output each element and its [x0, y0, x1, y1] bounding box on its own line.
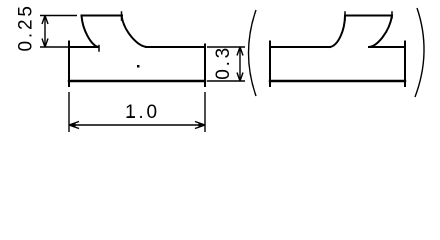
left fillet landing overshoot tick: [98, 46, 100, 52]
right shape base top edge left segment: [270, 46, 330, 48]
right shape base top edge right segment: [369, 46, 405, 48]
dim 1.0 left extension line: [68, 92, 70, 132]
foot serif of digit 1: [128, 116, 136, 118]
dim 0.3 dimension line: [239, 47, 241, 81]
dim 1.0 arrowhead left: [69, 122, 79, 129]
right shape plateau top: [345, 15, 392, 17]
plateau right end overshoot tick: [121, 12, 123, 20]
right plateau right end overshoot tick: [391, 12, 393, 18]
dim 0.25 top extension line: [40, 15, 77, 17]
center dot: [137, 65, 140, 68]
right shape base right edge: [404, 42, 406, 87]
dim 0.3 bottom extension line: [207, 80, 245, 82]
right shape base bottom edge: [270, 80, 405, 82]
dim 0.3 top extension line: [207, 46, 245, 48]
dim 0.25 arrowhead up: [42, 16, 48, 25]
right parenthesis: [415, 8, 424, 97]
dim 1.0 arrowhead right: [195, 122, 205, 129]
left shape right fillet curve: [122, 16, 148, 48]
right shape right fillet curve: [369, 16, 392, 48]
left shape base bottom edge: [69, 80, 205, 82]
dim 0.3 arrowhead up: [237, 47, 243, 56]
right plateau left end overshoot tick: [344, 12, 346, 20]
left parenthesis: [249, 10, 257, 96]
dim 0.25 bottom extension line: [40, 46, 69, 48]
dim 1.0 right extension line: [204, 92, 206, 132]
svg-text:0.3: 0.3: [213, 45, 234, 80]
left shape base top edge left segment: [69, 46, 98, 48]
left shape base top edge right segment: [146, 46, 205, 48]
left shape left fillet curve: [82, 16, 99, 48]
left shape plateau top: [82, 15, 123, 17]
dim 1.0 dimension line: [69, 124, 205, 126]
left shape base left edge: [68, 42, 70, 87]
right shape left fillet curve: [330, 16, 345, 48]
dim 0.25 dimension line: [44, 16, 46, 48]
dim 0.25 arrowhead down: [42, 39, 48, 48]
left shape base right edge: [204, 45, 206, 87]
right shape base left edge: [269, 42, 271, 87]
svg-text:0.25: 0.25: [16, 3, 37, 51]
svg-text:1.0: 1.0: [125, 102, 160, 123]
dim 0.3 arrowhead down: [237, 73, 243, 82]
